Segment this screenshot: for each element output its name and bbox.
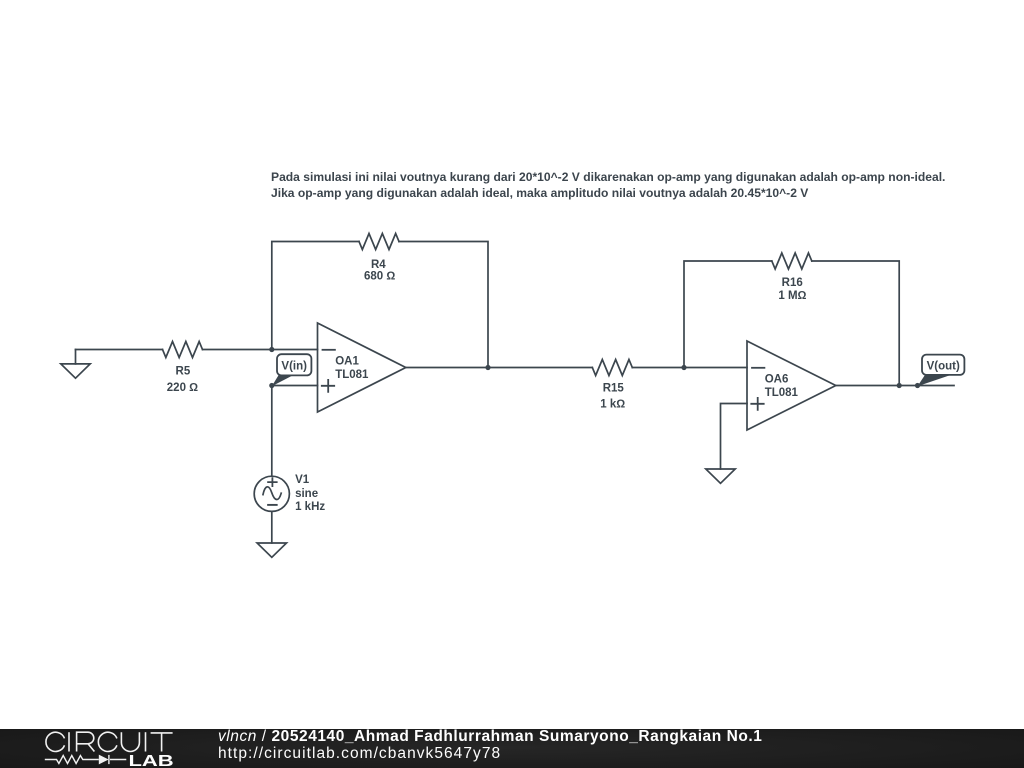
svg-text:TL081: TL081 bbox=[765, 387, 799, 399]
node: junction dot V(in) plus rail bbox=[269, 383, 274, 388]
svg-text:V(out): V(out) bbox=[927, 360, 960, 372]
wire: V1 to ground bbox=[271, 511, 273, 543]
svg-text:V1: V1 bbox=[295, 474, 310, 486]
svg-text:R4: R4 bbox=[371, 259, 386, 271]
svg-text:OA6: OA6 bbox=[765, 374, 789, 386]
resistor R15 bbox=[592, 360, 632, 376]
wire: R16 to OA6 output (feedback2 right vertical) bbox=[812, 261, 899, 386]
wire: OA6 plus input to ground bbox=[721, 404, 748, 470]
wire: OA6 output to V(out) bbox=[836, 385, 954, 387]
wire: feedback2 left vertical + top run to R16 bbox=[684, 261, 772, 368]
node: junction dot OA6 minus bbox=[681, 365, 686, 370]
footer bar bbox=[0, 729, 1024, 768]
svg-text:sine: sine bbox=[295, 488, 318, 500]
svg-text:220 Ω: 220 Ω bbox=[167, 382, 198, 394]
node: junction dot V(out) probe bbox=[915, 383, 920, 388]
CircuitLab logo bbox=[0, 729, 200, 768]
annotation text bbox=[271, 170, 945, 202]
node: junction dot OA1 output bbox=[485, 365, 490, 370]
svg-text:R15: R15 bbox=[603, 383, 625, 395]
op-amp OA1 bbox=[318, 323, 406, 412]
resistor R5 bbox=[163, 342, 203, 358]
wire: ground to R5 bbox=[76, 349, 163, 351]
resistor R16 bbox=[772, 253, 812, 269]
footer url text bbox=[218, 745, 501, 763]
svg-text:1 kHz: 1 kHz bbox=[295, 501, 325, 513]
svg-text:680 Ω: 680 Ω bbox=[364, 271, 395, 283]
node: junction dot V(in) top (minus rail) bbox=[269, 347, 274, 352]
svg-text:R16: R16 bbox=[782, 277, 803, 289]
svg-text:1 kΩ: 1 kΩ bbox=[600, 399, 625, 411]
svg-text:1 MΩ: 1 MΩ bbox=[778, 290, 806, 302]
node flag V(in) bbox=[277, 354, 311, 375]
wire: R4 to OA1 output (feedback1 right vertical) bbox=[399, 242, 488, 368]
wire: V(in) node down to V1 bbox=[271, 386, 273, 477]
wire: OA1 output to R15 bbox=[406, 367, 593, 369]
svg-text:OA1: OA1 bbox=[335, 356, 359, 368]
wire: R15 to OA6 minus input bbox=[632, 367, 747, 369]
svg-text:TL081: TL081 bbox=[335, 369, 369, 381]
ground GND2 (below V1) bbox=[257, 543, 286, 557]
voltage source V1 bbox=[254, 476, 289, 511]
op-amp OA6 bbox=[747, 341, 836, 430]
pointer wedge of V(out) flag bbox=[918, 375, 952, 386]
wire: R5 to OA1 minus input bbox=[203, 349, 318, 351]
svg-text:LAB: LAB bbox=[129, 753, 174, 768]
footer title text bbox=[218, 728, 762, 746]
svg-text:V(in): V(in) bbox=[281, 360, 307, 372]
resistor R4 bbox=[359, 234, 399, 250]
pointer wedge of V(in) flag bbox=[272, 375, 293, 386]
wire: feedback1 left vertical + top run to R4 bbox=[272, 242, 359, 350]
node flag V(out) bbox=[922, 355, 964, 375]
node: junction dot OA6 output bbox=[897, 383, 902, 388]
ground GND3 (OA6 plus input) bbox=[706, 469, 735, 483]
svg-text:R5: R5 bbox=[176, 366, 191, 378]
ground GND1 (left input ground) bbox=[61, 350, 90, 379]
wire: OA1 plus input bbox=[272, 385, 318, 387]
